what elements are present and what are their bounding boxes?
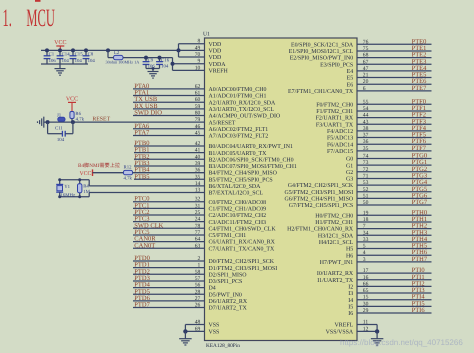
pin 67 (E3/SPI0_PCS) right [357,63,432,65]
svg-text:B4/FTM2_CH4/SPI0_MISO: B4/FTM2_CH4/SPI0_MISO [209,171,278,177]
svg-text:B5/FTM2_CH5/SPI0_PCS: B5/FTM2_CH5/SPI0_PCS [209,177,273,183]
svg-text:37: 37 [363,133,369,139]
svg-text:B6/XTAL/I2C0_SDA: B6/XTAL/I2C0_SDA [209,184,262,190]
svg-text:E3/SPI0_PCS: E3/SPI0_PCS [320,62,353,68]
svg-text:PTI6: PTI6 [412,307,426,314]
svg-text:H7/PWT_IN1: H7/PWT_IN1 [320,260,353,266]
svg-text:B0/ADC04/UART0_RX/PWT_IN1: B0/ADC04/UART0_RX/PWT_IN1 [209,144,293,150]
svg-text:C2/ADC10/FTM2_CH2: C2/ADC10/FTM2_CH2 [209,213,267,219]
wire crystal bottom rail [60,196,89,198]
svg-text:D1/FTM2_CH3/SPI1_MOSI: D1/FTM2_CH3/SPI1_MOSI [209,266,278,272]
pin 44 (F2/UART1_RX) right [357,117,432,119]
svg-text:50: 50 [363,200,369,206]
pin 71 (G3) right [357,177,432,179]
svg-text:C5/FTM1_CH1: C5/FTM1_CH1 [209,233,247,239]
ferrite bead L2 30ohm 100MHz 1A [107,50,109,57]
svg-text:33: 33 [363,237,369,243]
pin 56 (D4) left [133,287,205,289]
svg-text:15: 15 [363,295,369,301]
svg-text:A5/RESET: A5/RESET [209,120,236,126]
pin 46 (A6/ADC02/FTM2_FLT1) left [133,128,205,130]
svg-text:PTB5: PTB5 [134,173,149,180]
svg-text:I0/UART2_RX: I0/UART2_RX [317,271,354,277]
pin 36 (F6/ADC14) right [357,143,432,145]
pin 29 (I6) right [357,312,432,314]
svg-text:Y1: Y1 [64,184,70,190]
svg-text:75: 75 [363,46,369,52]
svg-text:C1/FTM2_CH1/ADC09: C1/FTM2_CH1/ADC09 [209,206,267,212]
svg-text:C6/UART1_RX/CAN0_RX: C6/UART1_RX/CAN0_RX [209,240,276,246]
pin 38 (F4/ADC12) right [357,130,432,132]
capacitor C16 104 [159,58,161,62]
svg-text:D0/FTM2_CH2/SPI1_SCK: D0/FTM2_CH2/SPI1_SCK [209,259,275,265]
svg-text:A3/UART0_TX/I2C0_SCL: A3/UART0_TX/I2C0_SCL [209,107,275,113]
svg-text:VDDA: VDDA [209,62,227,68]
svg-text:D3/SPI1_PCS: D3/SPI1_PCS [209,279,243,285]
svg-text:26: 26 [195,303,201,309]
svg-text:I2: I2 [348,285,353,291]
svg-text:F6/ADC14: F6/ADC14 [327,142,353,148]
svg-text:46: 46 [195,124,201,130]
svg-text:VSS/VSSA: VSS/VSSA [326,330,354,336]
svg-text:41: 41 [195,148,201,154]
svg-text:VDD: VDD [209,42,223,48]
svg-text:43: 43 [363,119,369,125]
svg-text:1: 1 [198,263,201,269]
pin 60 (A2/UART0_RX/I2C0_SDA) left [133,101,205,103]
pin 6 (E7/FTM1_CH1/CAN0_TX) right [357,90,432,92]
svg-text:PTH7: PTH7 [412,256,428,263]
svg-text:38: 38 [363,126,369,132]
svg-text:C0/FTM2_CH0/ADC08: C0/FTM2_CH0/ADC08 [209,200,267,206]
svg-text:SWD DIO: SWD DIO [134,110,162,117]
ground (decoupling caps) [59,64,61,69]
wire crystal to EXTAL pin [88,193,90,197]
svg-text:A0/ADC00/FTM0_CH0: A0/ADC00/FTM0_CH0 [209,87,267,93]
svg-text:57: 57 [195,276,201,282]
svg-text:45: 45 [195,130,201,136]
pin 31 (C1/FTM2_CH1/ADC09) left [133,207,205,209]
ground (reset, rotated) [44,121,48,123]
wire VDD top rail [41,49,179,51]
svg-text:C9: C9 [148,57,154,63]
svg-text:104: 104 [57,137,65,143]
svg-text:74: 74 [363,154,369,160]
svg-text:54: 54 [363,106,369,112]
svg-text:H1/FTM2_CH1: H1/FTM2_CH1 [315,220,353,226]
pin 62 (A0/ADC00/FTM0_CH0) left [133,88,205,90]
svg-text:F2/UART1_RX: F2/UART1_RX [316,116,354,122]
svg-text:106: 106 [49,58,57,64]
pin 41 (B1/ADC05/UART0_TX) left [134,152,205,154]
wire PTB4 net (NMI pull-up row) [93,172,205,174]
svg-text:B2/ADC06/SPI0_SCK/FTM0_CH0: B2/ADC06/SPI0_SCK/FTM0_CH0 [209,157,294,163]
svg-text:G5/FTM2_CH3/SPI1_MOSI: G5/FTM2_CH3/SPI1_MOSI [284,190,353,196]
svg-text:PTG7: PTG7 [412,199,428,206]
svg-text:27: 27 [195,296,201,302]
svg-text:C1: C1 [49,51,55,57]
svg-text:PTF7: PTF7 [412,145,427,152]
junction dots crystal [58,178,61,181]
svg-text:C15: C15 [75,51,84,57]
svg-text:H6: H6 [346,253,353,259]
pin 33 (H4/I2C1_SCL) right [357,241,432,243]
svg-text:77: 77 [195,230,201,236]
wire RESET row [47,121,205,123]
pin 20 (E6) right [357,83,432,85]
svg-text:E4: E4 [347,69,354,75]
svg-text:VDD: VDD [209,48,223,54]
pin 39 (B3/ADC07/SPI0_MOSI/FTM0_CH1) left [134,165,205,167]
svg-text:72: 72 [363,167,369,173]
MCU U1 KEA128_80Pin body [205,38,358,341]
capacitor C15 104 [72,50,74,55]
wire R12 to PTB4 pin [133,172,205,174]
svg-text:H3/I2C1_SDA: H3/I2C1_SDA [318,233,354,239]
svg-text:6: 6 [363,86,366,92]
wire VDDA branch [108,57,114,59]
svg-text:VSS: VSS [209,330,220,336]
junction dots top rail [45,48,49,52]
svg-text:R6: R6 [75,111,81,117]
svg-text:39: 39 [195,161,201,167]
pin 7 (H2/FTM1_CH0/CAN0_RX) right [357,228,432,230]
svg-text:58: 58 [195,269,201,275]
wire VREFL/VSSA right pins 11/12 [376,325,378,332]
svg-text:B3/ADC07/SPI0_MOSI/FTM0_CH1: B3/ADC07/SPI0_MOSI/FTM0_CH1 [209,164,297,170]
svg-text:G0: G0 [346,157,353,163]
svg-text:VCC: VCC [80,171,92,177]
wire caps bottom rail [41,63,88,65]
svg-text:4: 4 [363,250,366,256]
pin 11 (VREFL) right [357,324,377,326]
svg-text:65: 65 [363,288,369,294]
svg-text:E1/SPI0_MOSI/I2C1_SCL: E1/SPI0_MOSI/I2C1_SCL [289,49,354,55]
svg-text:68: 68 [363,53,369,59]
pin 53 (G4/FTM2_CH2/SPI1_SCK) right [357,184,432,186]
pin 55 (F0/FTM2_CH0) right [357,103,432,105]
pin 47 (E4) right [357,70,432,72]
svg-text:I1/UART2_TX: I1/UART2_TX [317,278,354,284]
svg-text:64: 64 [195,237,201,243]
svg-text:29: 29 [363,308,369,314]
svg-text:16MHz: 16MHz [61,192,76,198]
svg-text:F1/FTM2_CH1: F1/FTM2_CH1 [316,109,353,115]
pin 16 (I1/UART2_TX) right [357,279,432,281]
pin 2 (D0/FTM2_CH2/SPI1_SCK) left [133,260,205,262]
svg-text:19: 19 [363,210,369,216]
svg-text:E2/SPI0_MISO/PWT_IN0: E2/SPI0_MISO/PWT_IN0 [290,56,354,62]
capacitor C9 106 [145,58,147,62]
junction dots VDDA branch [144,56,148,60]
svg-text:H2/FTM1_CH0/CAN0_RX: H2/FTM1_CH0/CAN0_RX [287,227,354,233]
svg-text:62: 62 [195,84,201,90]
svg-text:F5/ADC13: F5/ADC13 [327,136,353,142]
svg-text:C14: C14 [62,51,71,57]
svg-text:VCC: VCC [54,40,66,46]
svg-text:31: 31 [195,203,201,209]
svg-text:G7/FTM2_CH5/SPI1_PCS: G7/FTM2_CH5/SPI1_PCS [289,203,354,209]
pin 18 (H1/FTM2_CH1) right [357,221,432,223]
svg-text:H4/I2C1_SCL: H4/I2C1_SCL [319,240,354,246]
pin 75 (E1/SPI0_MOSI/I2C1_SCL) right [357,50,432,52]
pin 35 (B5/FTM2_CH5/SPI0_PCS) left [134,178,205,180]
pin 37 (F5/ADC13) right [357,137,432,139]
svg-text:PTE7: PTE7 [412,85,428,92]
pin 50 (G7/FTM2_CH5/SPI1_PCS) right [357,204,432,206]
svg-text:A2/UART0_RX/I2C0_SDA: A2/UART0_RX/I2C0_SDA [209,100,276,106]
svg-text:36: 36 [363,139,369,145]
pin 21 (E5) right [357,77,432,79]
svg-text:L2: L2 [114,50,120,56]
wire crystal top rail [60,179,89,181]
pin 17 (I0/UART2_RX) right [357,272,432,274]
svg-text:G2: G2 [346,170,353,176]
svg-text:67: 67 [363,59,369,65]
svg-text:VCC: VCC [66,96,78,102]
wire VCC to R12 [93,172,124,174]
svg-text:D2/SPI1_MISO: D2/SPI1_MISO [209,272,248,278]
svg-text:D6/UART2_RX: D6/UART2_RX [209,299,248,305]
svg-text:VREFH: VREFH [209,68,229,74]
svg-text:PTD7: PTD7 [134,302,150,309]
pin 68 (E2/SPI0_MISO/PWT_IN0) right [357,57,432,59]
svg-text:16: 16 [363,275,369,281]
svg-text:1.: 1. [3,5,12,32]
svg-text:B7/EXTAL/I2C0_SCL: B7/EXTAL/I2C0_SCL [209,191,264,197]
svg-text:G3: G3 [346,177,353,183]
wire EXTAL row B7 [89,192,204,194]
svg-text:18: 18 [363,217,369,223]
svg-text:12: 12 [363,326,369,332]
svg-text:24: 24 [195,217,201,223]
pin 58 (D2/SPI1_MISO) left [133,273,205,275]
pin 80 (A4/ACMP0_OUT/SWD_DIO) left [133,115,205,117]
svg-text:G6/FTM2_CH4/SPI1_MISO: G6/FTM2_CH4/SPI1_MISO [284,197,353,203]
svg-text:C7/UART1_TX/CAN0_TX: C7/UART1_TX/CAN0_TX [209,246,275,252]
pin 74 (G0) right [357,158,432,160]
wire C9/C16 bottom rail [146,68,160,70]
svg-text:RESET: RESET [92,117,110,123]
svg-text:E7/FTM1_CH1/CAN0_TX: E7/FTM1_CH1/CAN0_TX [288,89,354,95]
svg-text:80: 80 [195,111,201,117]
pin 66 (I2) right [357,285,432,287]
svg-text:20: 20 [363,79,369,85]
pin 34 (H3/I2C1_SDA) right [357,234,432,236]
svg-text:25: 25 [195,210,201,216]
pin 78 (C4/FTM1_CH0/SWD_CLK) left [133,227,205,229]
svg-text:51: 51 [363,193,369,199]
pin 5 (H5) right [357,248,432,250]
svg-text:I3: I3 [348,291,353,297]
svg-text:28: 28 [195,289,201,295]
svg-text:17: 17 [363,268,369,274]
pin 64 (C6/UART1_RX/CAN0_RX) left [133,241,205,243]
pin 59 (A3/UART0_TX/I2C0_SCL) left [133,108,205,110]
svg-text:G1: G1 [346,163,353,169]
svg-text:KEA128_80Pin: KEA128_80Pin [206,343,240,349]
svg-text:E0/SPI0_SCK/I2C1_SDA: E0/SPI0_SCK/I2C1_SDA [291,42,354,48]
capacitor C1 106 [46,50,48,55]
svg-text:C3/ADC11/FTM2_CH3: C3/ADC11/FTM2_CH3 [209,220,266,226]
resistor R12 4.7k [124,170,133,174]
svg-text:63: 63 [195,243,201,249]
svg-text:5: 5 [363,244,366,250]
svg-text:4.7k: 4.7k [76,117,85,123]
ground (VSS left) [184,331,186,338]
pin 72 (G2) right [357,171,432,173]
svg-text:47: 47 [363,66,369,72]
svg-text:F0/FTM2_CH0: F0/FTM2_CH0 [316,102,353,108]
pin 77 (C5/FTM1_CH1) left [133,234,205,236]
svg-text:104: 104 [161,64,169,70]
svg-text:32: 32 [195,197,201,203]
svg-text:C11: C11 [55,126,63,132]
svg-text:A4/ACMP0_OUT/SWD_DIO: A4/ACMP0_OUT/SWD_DIO [209,114,281,120]
svg-text:60: 60 [195,97,201,103]
svg-text:59: 59 [195,104,201,110]
svg-text:C16: C16 [161,57,170,63]
pin 28 (D5/PWT_IN0) left [133,293,205,295]
svg-text:42: 42 [195,141,201,147]
ground (VDDA caps) [152,69,154,72]
svg-text:7: 7 [363,224,366,230]
pin 45 (A7/ADC03/FTM2_FLT2) left [133,134,205,136]
svg-text:C8: C8 [88,51,94,57]
pin 3 (H7/PWT_IN1) right [357,261,432,263]
pin 40 (B2/ADC06/SPI0_SCK/FTM0_CH0) left [134,158,205,160]
svg-text:11: 11 [363,320,369,326]
pin 43 (F3/UART1_TX) right [357,123,432,125]
pin 12 (VSS/VSSA) right [357,330,377,332]
svg-text:F4/ADC12: F4/ADC12 [327,129,353,135]
svg-text:E5: E5 [347,76,354,82]
pin 19 (H0/FTM2_CH0) right [357,214,432,216]
pin 65 (I3) right [357,292,432,294]
svg-text:R4: R4 [83,184,89,190]
pin 32 (C0/FTM2_CH0/ADC08) left [133,201,205,203]
svg-text:104: 104 [75,58,83,64]
svg-text:55: 55 [363,99,369,105]
pin 26 (D7/UART2_TX) left [133,307,205,309]
svg-text:52: 52 [363,187,369,193]
svg-text:G4/FTM2_CH2/SPI1_SCK: G4/FTM2_CH2/SPI1_SCK [288,183,354,189]
svg-text:VSS: VSS [209,323,220,329]
svg-text:4.7k: 4.7k [124,175,133,181]
svg-text:61: 61 [195,91,201,97]
pin 57 (D3/SPI1_PCS) left [133,280,205,282]
svg-text:78: 78 [195,223,201,229]
pin 42 (B0/ADC04/UART0_RX/PWT_IN1) left [134,145,205,147]
crystal Y1 16MHz [59,180,61,184]
svg-text:53: 53 [363,180,369,186]
svg-text:44: 44 [363,113,369,119]
svg-text:D4: D4 [209,286,216,292]
svg-text:35: 35 [195,174,201,180]
svg-text:104: 104 [62,58,70,64]
svg-text:D7/UART2_TX: D7/UART2_TX [209,306,248,312]
resistor R6 4.7k [70,112,74,119]
svg-text:40: 40 [195,154,201,160]
svg-text:https://blog.csdn.net/qq_40715: https://blog.csdn.net/qq_40715266 [340,338,463,347]
pin 24 (C3/ADC11/FTM2_CH3) left [133,221,205,223]
svg-text:D5/PWT_IN0: D5/PWT_IN0 [209,292,242,298]
svg-text:66: 66 [363,281,369,287]
pin 27 (D6/UART2_RX) left [133,300,205,302]
svg-text:71: 71 [363,173,369,179]
svg-text:3: 3 [363,257,366,263]
svg-text:U1: U1 [203,32,210,38]
svg-text:A7/ADC03/FTM2_FLT2: A7/ADC03/FTM2_FLT2 [209,134,269,140]
wire crystal to XTAL pin [88,180,90,186]
svg-text:30ohm 100MHz 1A: 30ohm 100MHz 1A [106,59,140,64]
svg-text:B1/ADC05/UART0_TX: B1/ADC05/UART0_TX [209,151,268,157]
svg-text:35: 35 [363,146,369,152]
svg-text:PTA7: PTA7 [134,129,150,136]
svg-text:CAN0T: CAN0T [134,242,155,249]
pin 54 (F1/FTM2_CH1) right [357,110,432,112]
svg-text:2: 2 [198,256,201,262]
svg-text:34: 34 [363,230,369,236]
svg-text:73: 73 [363,160,369,166]
pin 61 (A1/ADC01/FTM0_CH1) left [133,95,205,97]
pin 51 (G6/FTM2_CH4/SPI1_MISO) right [357,197,432,199]
pin 73 (G1) right [357,164,432,166]
svg-text:F7/ADC15: F7/ADC15 [327,149,353,155]
wire VDDA/VREFH vertical to pins 9/10 [172,58,174,71]
svg-text:A1/ADC01/FTM0_CH1: A1/ADC01/FTM0_CH1 [209,94,267,100]
pin 30 (I5) right [357,305,432,307]
svg-text:MCU: MCU [26,5,54,32]
svg-text:VREFL: VREFL [335,323,354,329]
pin 76 (E0/SPI0_SCK/I2C1_SDA) right [357,43,432,45]
wire VDD vertical to pins 8/49/70 [178,44,180,57]
svg-text:B4脚NMI需要上拉: B4脚NMI需要上拉 [78,162,121,169]
wire VSS left pins 48/69 [185,324,204,326]
svg-text:30: 30 [363,301,369,307]
svg-text:H5: H5 [346,247,353,253]
svg-text:A6/ADC02/FTM2_FLT1: A6/ADC02/FTM2_FLT1 [209,127,269,133]
pin 15 (I4) right [357,299,432,301]
pin 35 (F7/ADC15) right [357,150,432,152]
pin 25 (C2/ADC10/FTM2_CH2) left [133,214,205,216]
pin 1 (D1/FTM2_CH3/SPI1_MOSI) left [133,267,205,269]
svg-text:H0/FTM2_CH0: H0/FTM2_CH0 [315,213,353,219]
svg-text:I4: I4 [348,298,353,304]
wire XTAL row B6 [89,185,204,187]
pin 63 (C7/UART1_TX/CAN0_TX) left [133,247,205,249]
svg-text:104: 104 [88,58,96,64]
svg-text:21: 21 [363,73,369,79]
capacitor C14 104 [59,50,61,55]
svg-text:E6: E6 [347,82,354,88]
svg-text:F3/UART1_TX: F3/UART1_TX [316,122,354,128]
red cropped text remnant top [35,0,41,2]
svg-text:C4/FTM1_CH0/SWD_CLK: C4/FTM1_CH0/SWD_CLK [209,226,277,232]
junction dots reset [46,120,50,124]
resistor R4 1M [79,180,81,184]
pin 52 (G5/FTM2_CH3/SPI1_MOSI) right [357,191,432,193]
svg-text:56: 56 [195,283,201,289]
svg-text:I6: I6 [348,311,353,317]
svg-text:VDD: VDD [209,55,223,61]
svg-text:76: 76 [363,39,369,45]
svg-text:I5: I5 [348,304,353,310]
capacitor C8 104 [85,50,87,55]
ground (VSS right) [376,331,378,338]
capacitor C11 104 (reset) [47,122,49,134]
pin 4 (H6) right [357,254,432,256]
